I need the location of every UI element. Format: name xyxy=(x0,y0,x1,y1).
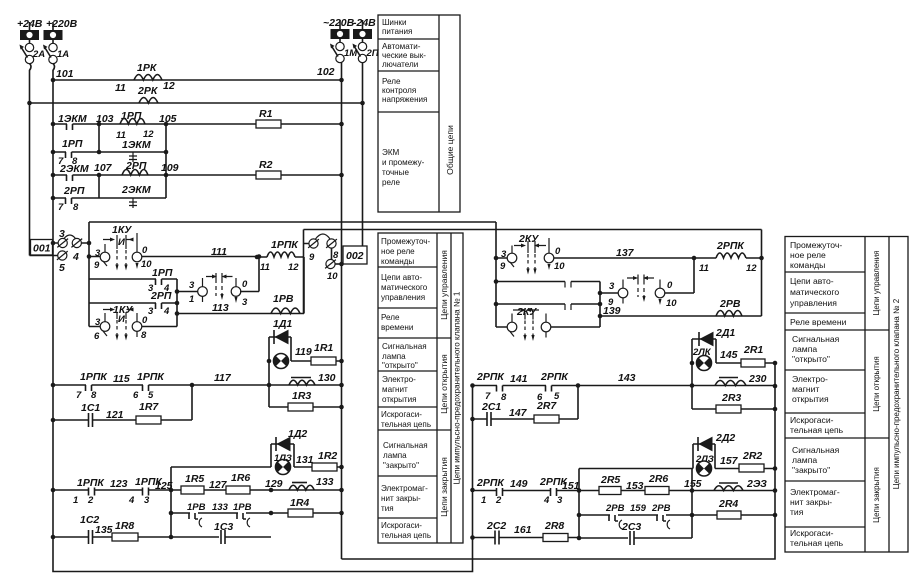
svg-text:4: 4 xyxy=(543,495,550,506)
wire 2РП contact row xyxy=(89,302,177,304)
svg-text:1R2: 1R2 xyxy=(318,450,337,462)
wire return bus left valve xyxy=(53,385,475,572)
contact 2ЭКМ xyxy=(59,162,113,181)
resistor 1R5 xyxy=(181,473,204,494)
vertical link left valve xyxy=(175,279,180,327)
svg-text:130: 130 xyxy=(318,372,336,384)
lamp 2ЛЗ xyxy=(695,454,714,476)
svg-text:нит закры-: нит закры- xyxy=(381,494,421,503)
fuse +24В xyxy=(17,18,43,52)
wire 113 row xyxy=(177,257,304,314)
svg-text:1РПК: 1РПК xyxy=(77,477,105,489)
svg-text:Электро-: Электро- xyxy=(792,374,828,384)
diode 2Д2 xyxy=(693,432,735,469)
svg-text:Цепи открытия: Цепи открытия xyxy=(439,354,449,414)
contact 2РП 3-4 xyxy=(148,290,172,317)
svg-text:команды: команды xyxy=(790,260,825,270)
svg-text:109: 109 xyxy=(161,162,179,174)
svg-text:2РПК: 2РПК xyxy=(540,371,569,383)
svg-text:139: 139 xyxy=(603,305,621,317)
svg-text:001: 001 xyxy=(33,243,51,255)
svg-text:113: 113 xyxy=(212,302,229,314)
svg-text:5: 5 xyxy=(59,262,65,274)
switch А auto row xyxy=(175,254,262,308)
manometer 2ЭКМ device xyxy=(121,184,151,208)
wire 1РП contact row xyxy=(89,278,177,280)
electromagnet 2ЭО 230 xyxy=(715,373,767,386)
svg-text:лампа: лампа xyxy=(792,344,817,354)
breaker 2А xyxy=(20,45,46,64)
node 153 / resistor 2R6 xyxy=(626,473,669,495)
svg-text:открытия: открытия xyxy=(792,394,829,404)
fuse ~220В xyxy=(323,17,355,51)
svg-text:Цепи импульсно-предохранительн: Цепи импульсно-предохранительного клапан… xyxy=(892,298,901,489)
svg-text:0: 0 xyxy=(667,280,673,291)
svg-text:161: 161 xyxy=(514,524,532,536)
svg-text:тия: тия xyxy=(790,507,804,517)
svg-text:3: 3 xyxy=(242,297,248,308)
svg-text:1С3: 1С3 xyxy=(214,521,233,533)
svg-text:5: 5 xyxy=(148,390,154,401)
svg-text:"закрыто": "закрыто" xyxy=(792,465,830,475)
svg-text:8: 8 xyxy=(73,202,79,213)
svg-text:Шинки: Шинки xyxy=(382,18,406,27)
svg-text:2РПК: 2РПК xyxy=(476,371,505,383)
relay coil 1РВ xyxy=(271,293,300,314)
table Общие цепи xyxy=(378,15,460,212)
svg-text:2R3: 2R3 xyxy=(721,392,741,404)
node 133 / contact 1РВ right xyxy=(212,502,252,527)
wire 141-143 row xyxy=(470,372,775,388)
svg-text:Сигнальная: Сигнальная xyxy=(382,342,427,351)
svg-text:тия: тия xyxy=(381,504,394,513)
svg-text:1ЭКМ: 1ЭКМ xyxy=(122,139,151,151)
svg-text:1РВ: 1РВ xyxy=(187,502,206,513)
svg-text:2РП: 2РП xyxy=(150,290,172,302)
svg-text:107: 107 xyxy=(94,162,113,174)
svg-text:R1: R1 xyxy=(259,108,273,120)
svg-text:2Д2: 2Д2 xyxy=(715,432,735,444)
svg-text:3: 3 xyxy=(144,495,150,506)
svg-text:Искрогаси-: Искрогаси- xyxy=(790,528,834,538)
breaker 1М xyxy=(330,44,358,63)
svg-text:лампа: лампа xyxy=(383,451,407,460)
svg-text:3: 3 xyxy=(557,495,563,506)
svg-text:управления: управления xyxy=(790,298,837,308)
svg-text:команды: команды xyxy=(381,257,414,266)
svg-text:2КУ: 2КУ xyxy=(516,306,537,318)
node 3 pin 001 xyxy=(51,228,92,263)
wire 137 row xyxy=(496,247,696,260)
svg-text:2РВ: 2РВ xyxy=(605,503,625,514)
resistor 1R4 xyxy=(288,497,313,517)
svg-text:2ЭЗ: 2ЭЗ xyxy=(746,478,767,490)
svg-text:119: 119 xyxy=(295,346,312,358)
svg-text:127: 127 xyxy=(209,479,228,491)
svg-text:питания: питания xyxy=(382,27,412,36)
svg-text:117: 117 xyxy=(214,372,232,384)
svg-text:матического: матического xyxy=(381,283,428,292)
svg-text:1РВ: 1РВ xyxy=(233,502,252,513)
svg-text:+220В: +220В xyxy=(46,18,78,30)
resistor 1R7 xyxy=(136,401,161,424)
svg-text:тельная цепь: тельная цепь xyxy=(381,531,431,540)
breaker 2П xyxy=(353,44,379,63)
svg-text:лючатели: лючатели xyxy=(382,60,418,69)
svg-text:8: 8 xyxy=(501,392,507,403)
svg-text:2А: 2А xyxy=(32,49,45,60)
svg-text:Общие цепи: Общие цепи xyxy=(445,125,455,175)
svg-text:1R5: 1R5 xyxy=(185,473,204,485)
svg-text:1А: 1А xyxy=(57,49,69,60)
svg-text:133: 133 xyxy=(212,502,229,513)
diode 1Д1 xyxy=(269,318,292,361)
svg-text:1R3: 1R3 xyxy=(292,390,311,402)
svg-text:2R1: 2R1 xyxy=(743,344,763,356)
resistor 2R3 row xyxy=(692,363,775,413)
svg-text:002: 002 xyxy=(346,250,364,262)
svg-text:1РК: 1РК xyxy=(137,62,158,74)
svg-text:лампа: лампа xyxy=(382,352,406,361)
svg-text:3: 3 xyxy=(189,280,195,291)
svg-text:1: 1 xyxy=(481,495,486,506)
wire bottom bus 220В xyxy=(342,361,778,559)
wire crossover +220В to valve2 xyxy=(89,221,496,223)
svg-text:10: 10 xyxy=(327,271,338,282)
contact 1РВ left xyxy=(187,502,206,527)
svg-text:нит закры-: нит закры- xyxy=(790,497,832,507)
wire crossover -24В to valve2 xyxy=(304,229,762,231)
contact 2РВ left xyxy=(605,503,625,529)
contact 2РПК 7-8 xyxy=(476,371,507,403)
electromagnet 2ЭЗ xyxy=(714,478,767,491)
svg-text:9: 9 xyxy=(309,252,315,263)
contact 2РПК 6-5 xyxy=(537,371,569,403)
svg-text:2РП: 2РП xyxy=(63,185,85,197)
relay coil 1РПК xyxy=(255,239,304,273)
relay coil 1РК xyxy=(134,62,162,80)
svg-text:магнит: магнит xyxy=(792,384,819,394)
svg-text:Цепи закрытия: Цепи закрытия xyxy=(872,467,881,523)
wire 157 / resistor 2R2 xyxy=(579,450,775,472)
svg-text:6: 6 xyxy=(94,331,100,342)
svg-text:3: 3 xyxy=(148,306,154,317)
lamp 1ЛЗ xyxy=(274,453,292,475)
svg-text:2: 2 xyxy=(87,495,94,506)
svg-text:10: 10 xyxy=(666,298,677,309)
manometer 1ЭКМ device xyxy=(122,139,151,162)
svg-text:10: 10 xyxy=(141,259,152,270)
svg-text:8: 8 xyxy=(91,390,97,401)
svg-text:4: 4 xyxy=(72,251,79,263)
switch А auto valve2 xyxy=(600,258,694,309)
svg-text:2С2: 2С2 xyxy=(486,520,506,532)
diode 2Д1 xyxy=(692,327,735,363)
wire 1РП self-hold row xyxy=(51,150,166,155)
wire 1РВ contacts row xyxy=(169,511,344,516)
wire 145 / resistor 2R1 xyxy=(716,344,775,367)
svg-text:Цепи управления: Цепи управления xyxy=(872,250,881,315)
fuse -24В xyxy=(353,17,376,51)
contact 1ЭКМ xyxy=(58,113,114,130)
svg-text:0: 0 xyxy=(555,246,561,257)
svg-text:Цепи управления: Цепи управления xyxy=(439,250,449,320)
svg-text:1R8: 1R8 xyxy=(115,520,134,532)
svg-text:4: 4 xyxy=(163,306,170,317)
svg-text:2ЭКМ: 2ЭКМ xyxy=(121,184,151,196)
svg-text:ное реле: ное реле xyxy=(381,247,415,256)
wire 111 row xyxy=(87,246,259,259)
svg-text:1КУ: 1КУ xyxy=(112,224,132,236)
contact 2РПК 1-2 xyxy=(476,477,505,506)
svg-text:Реле времени: Реле времени xyxy=(790,317,847,327)
connector 001 xyxy=(31,240,53,256)
wire 139 row xyxy=(600,305,762,317)
svg-text:2С1: 2С1 xyxy=(481,401,501,413)
wire 119 / resistor 1R1 xyxy=(291,342,344,365)
svg-text:121: 121 xyxy=(106,409,124,421)
svg-text:и промежу-: и промежу- xyxy=(382,158,425,167)
svg-text:2С3: 2С3 xyxy=(621,521,641,533)
svg-text:2R8: 2R8 xyxy=(544,520,564,532)
svg-text:Автомати-: Автомати- xyxy=(382,42,421,51)
contact 2РПК 4-3 xyxy=(539,476,568,506)
svg-text:магнит: магнит xyxy=(382,385,408,394)
svg-text:102: 102 xyxy=(317,66,335,78)
svg-text:ческие вык-: ческие вык- xyxy=(382,51,426,60)
svg-text:Сигнальная: Сигнальная xyxy=(383,441,428,450)
svg-text:143: 143 xyxy=(618,372,636,384)
svg-text:157: 157 xyxy=(720,455,739,467)
svg-text:155: 155 xyxy=(684,478,702,490)
wire row 105 / R1 xyxy=(51,122,344,127)
svg-text:153: 153 xyxy=(626,480,644,492)
svg-text:2РВ: 2РВ xyxy=(719,298,741,310)
electromagnet 1ЭЗ 133 xyxy=(289,476,334,490)
svg-text:2R2: 2R2 xyxy=(742,450,762,462)
svg-text:1R6: 1R6 xyxy=(231,472,250,484)
wire 2РВ contacts row xyxy=(577,513,775,518)
svg-text:2R4: 2R4 xyxy=(718,498,738,510)
svg-text:11: 11 xyxy=(115,82,126,94)
bus +220В vertical xyxy=(53,63,74,537)
vertical -24В valve2 xyxy=(759,230,764,317)
svg-text:ное реле: ное реле xyxy=(790,250,826,260)
svg-text:"открыто": "открыто" xyxy=(792,354,830,364)
svg-text:1РП: 1РП xyxy=(152,267,173,279)
svg-text:напряжения: напряжения xyxy=(382,95,427,104)
svg-text:И: И xyxy=(118,237,125,248)
svg-text:101: 101 xyxy=(56,68,74,80)
svg-text:131: 131 xyxy=(296,454,314,466)
svg-text:1РПК: 1РПК xyxy=(80,371,108,383)
svg-text:10: 10 xyxy=(554,261,565,272)
electromagnet 1ЭО 130 xyxy=(289,372,336,385)
svg-text:Сигнальная: Сигнальная xyxy=(792,334,840,344)
svg-text:1Д1: 1Д1 xyxy=(273,318,292,330)
capacitor 1С3 xyxy=(214,521,233,544)
svg-text:2R7: 2R7 xyxy=(536,400,557,412)
svg-text:6: 6 xyxy=(133,390,139,401)
wire 123-125-129 row xyxy=(51,478,344,492)
svg-text:1РПК: 1РПК xyxy=(271,239,299,251)
svg-text:Электро-: Электро- xyxy=(382,375,416,384)
svg-text:Сигнальная: Сигнальная xyxy=(792,445,840,455)
wire 149-151-155 row xyxy=(473,478,776,493)
svg-text:Электромаг-: Электромаг- xyxy=(790,487,840,497)
capacitor 2С2 row xyxy=(473,520,580,545)
relay coil 2РП xyxy=(122,160,179,175)
svg-text:1R7: 1R7 xyxy=(139,401,159,413)
svg-text:тельная цепь: тельная цепь xyxy=(381,420,431,429)
svg-text:230: 230 xyxy=(748,373,767,385)
vertical +220В box edge xyxy=(88,222,90,327)
svg-text:159: 159 xyxy=(630,503,647,514)
svg-text:3: 3 xyxy=(609,281,615,292)
svg-text:4: 4 xyxy=(128,495,135,506)
contact 1РПК 7-8 xyxy=(76,371,108,401)
wire row 109 / R2 xyxy=(51,173,344,178)
svg-text:2РВ: 2РВ xyxy=(651,503,671,514)
node 5 pin 001 xyxy=(30,251,68,274)
svg-text:9: 9 xyxy=(500,261,506,272)
switch 1КУ upper xyxy=(94,224,152,271)
svg-text:1: 1 xyxy=(189,294,194,305)
svg-text:"закрыто": "закрыто" xyxy=(383,461,419,470)
resistor 2R7 xyxy=(534,400,559,423)
svg-text:Промежуточ-: Промежуточ- xyxy=(790,240,842,250)
wire РП row b xyxy=(496,304,600,310)
contact 1РПК 4-3 xyxy=(128,476,163,506)
svg-text:1РПК: 1РПК xyxy=(137,371,165,383)
fuse +220В xyxy=(44,18,78,52)
svg-text:времени: времени xyxy=(381,323,413,332)
svg-text:12: 12 xyxy=(288,262,299,273)
wire 131 / resistor 1R2 xyxy=(171,450,344,537)
svg-text:Искрогаси-: Искрогаси- xyxy=(790,415,834,425)
svg-text:~220В: ~220В xyxy=(323,17,355,29)
svg-text:137: 137 xyxy=(616,247,635,259)
connector 002 xyxy=(343,246,367,264)
bus valve2 left xyxy=(494,222,499,327)
svg-text:2РПК: 2РПК xyxy=(476,477,505,489)
node 8 pin 002 xyxy=(326,239,339,261)
resistor 2R4 xyxy=(717,498,741,519)
svg-text:7: 7 xyxy=(58,202,64,213)
svg-text:2R6: 2R6 xyxy=(648,473,668,485)
svg-text:11: 11 xyxy=(260,262,270,273)
wire 2РК row xyxy=(27,101,365,106)
svg-text:12: 12 xyxy=(746,263,757,274)
resistor 2R8 xyxy=(543,520,568,542)
svg-text:2КУ: 2КУ xyxy=(518,233,539,245)
relay coil 2РПК xyxy=(694,240,762,274)
resistor 1R3 row xyxy=(269,361,344,411)
node verticals row1 xyxy=(97,122,169,198)
capacitor 2С1 row xyxy=(473,386,579,427)
table valve2 legend xyxy=(785,237,908,553)
svg-text:147: 147 xyxy=(509,407,528,419)
svg-text:Реле: Реле xyxy=(382,77,401,86)
resistor R2 xyxy=(256,159,281,179)
svg-text:3: 3 xyxy=(501,249,507,260)
svg-text:8: 8 xyxy=(333,250,339,261)
svg-text:8: 8 xyxy=(141,330,147,341)
node 159 / contact 2РВ right xyxy=(630,503,671,529)
relay coil 2РК xyxy=(115,80,175,103)
svg-text:2РК: 2РК xyxy=(137,85,159,97)
svg-text:149: 149 xyxy=(510,478,528,490)
svg-text:лампа: лампа xyxy=(792,455,817,465)
svg-text:управления: управления xyxy=(381,293,425,302)
node 127 / resistor 1R6 xyxy=(209,472,250,494)
svg-text:"открыто": "открыто" xyxy=(382,361,418,370)
node 10 pin 002 xyxy=(325,259,344,282)
svg-text:133: 133 xyxy=(316,476,334,488)
svg-text:1РП: 1РП xyxy=(62,138,83,150)
svg-text:2R5: 2R5 xyxy=(600,474,620,486)
svg-text:Цепи закрытия: Цепи закрытия xyxy=(439,457,449,517)
resistor R1 xyxy=(256,108,281,128)
svg-text:1РПК: 1РПК xyxy=(135,476,163,488)
svg-text:2Д1: 2Д1 xyxy=(715,327,735,339)
svg-text:2РПК: 2РПК xyxy=(716,240,745,252)
table valve1 legend xyxy=(378,233,463,543)
vertical link valve2 xyxy=(598,282,603,328)
svg-text:2ЭКМ: 2ЭКМ xyxy=(59,163,89,175)
svg-text:открытия: открытия xyxy=(382,395,417,404)
svg-text:контроля: контроля xyxy=(382,86,416,95)
diode 1Д2 xyxy=(271,428,307,467)
resistor 2R5 xyxy=(599,474,621,495)
contact 1РП 7-8 xyxy=(58,138,83,167)
relay coil 1РП xyxy=(116,110,177,141)
svg-text:7: 7 xyxy=(76,390,82,401)
svg-text:129: 129 xyxy=(265,478,283,490)
svg-text:123: 123 xyxy=(110,478,128,490)
bus +24В vertical xyxy=(30,63,32,255)
svg-text:И: И xyxy=(118,314,125,325)
svg-text:Цепи открытия: Цепи открытия xyxy=(872,356,881,412)
switch 1КУ lower xyxy=(89,304,177,342)
svg-text:1: 1 xyxy=(73,495,78,506)
svg-text:реле: реле xyxy=(382,178,400,187)
svg-text:141: 141 xyxy=(510,373,528,385)
svg-text:-24В: -24В xyxy=(353,17,376,29)
switch 2КУ upper xyxy=(500,233,565,275)
wire РП row a xyxy=(496,282,600,288)
svg-text:135: 135 xyxy=(95,524,113,536)
lamp 2ЛК xyxy=(690,347,712,371)
wire 2РП self-hold row xyxy=(51,173,169,201)
svg-text:115: 115 xyxy=(113,373,130,385)
contact 1РПК 1-2 xyxy=(73,477,105,506)
svg-text:тельная цепь: тельная цепь xyxy=(790,425,844,435)
svg-text:12: 12 xyxy=(163,80,175,92)
svg-text:145: 145 xyxy=(720,349,738,361)
svg-text:Искрогаси-: Искрогаси- xyxy=(381,410,422,419)
bus -24В vertical xyxy=(362,62,364,246)
svg-text:2П: 2П xyxy=(366,48,379,59)
contact 1РП 3-4 xyxy=(148,267,173,294)
wire pin9 link xyxy=(304,230,310,314)
svg-text:1R4: 1R4 xyxy=(290,497,309,509)
lamp 1Л1 xyxy=(267,354,289,369)
svg-text:точные: точные xyxy=(382,168,409,177)
svg-text:Цепи импульсно-предохранительн: Цепи импульсно-предохранительного клапан… xyxy=(453,291,462,484)
breaker 1А xyxy=(43,45,69,64)
capacitor 1С1 row xyxy=(51,385,192,427)
